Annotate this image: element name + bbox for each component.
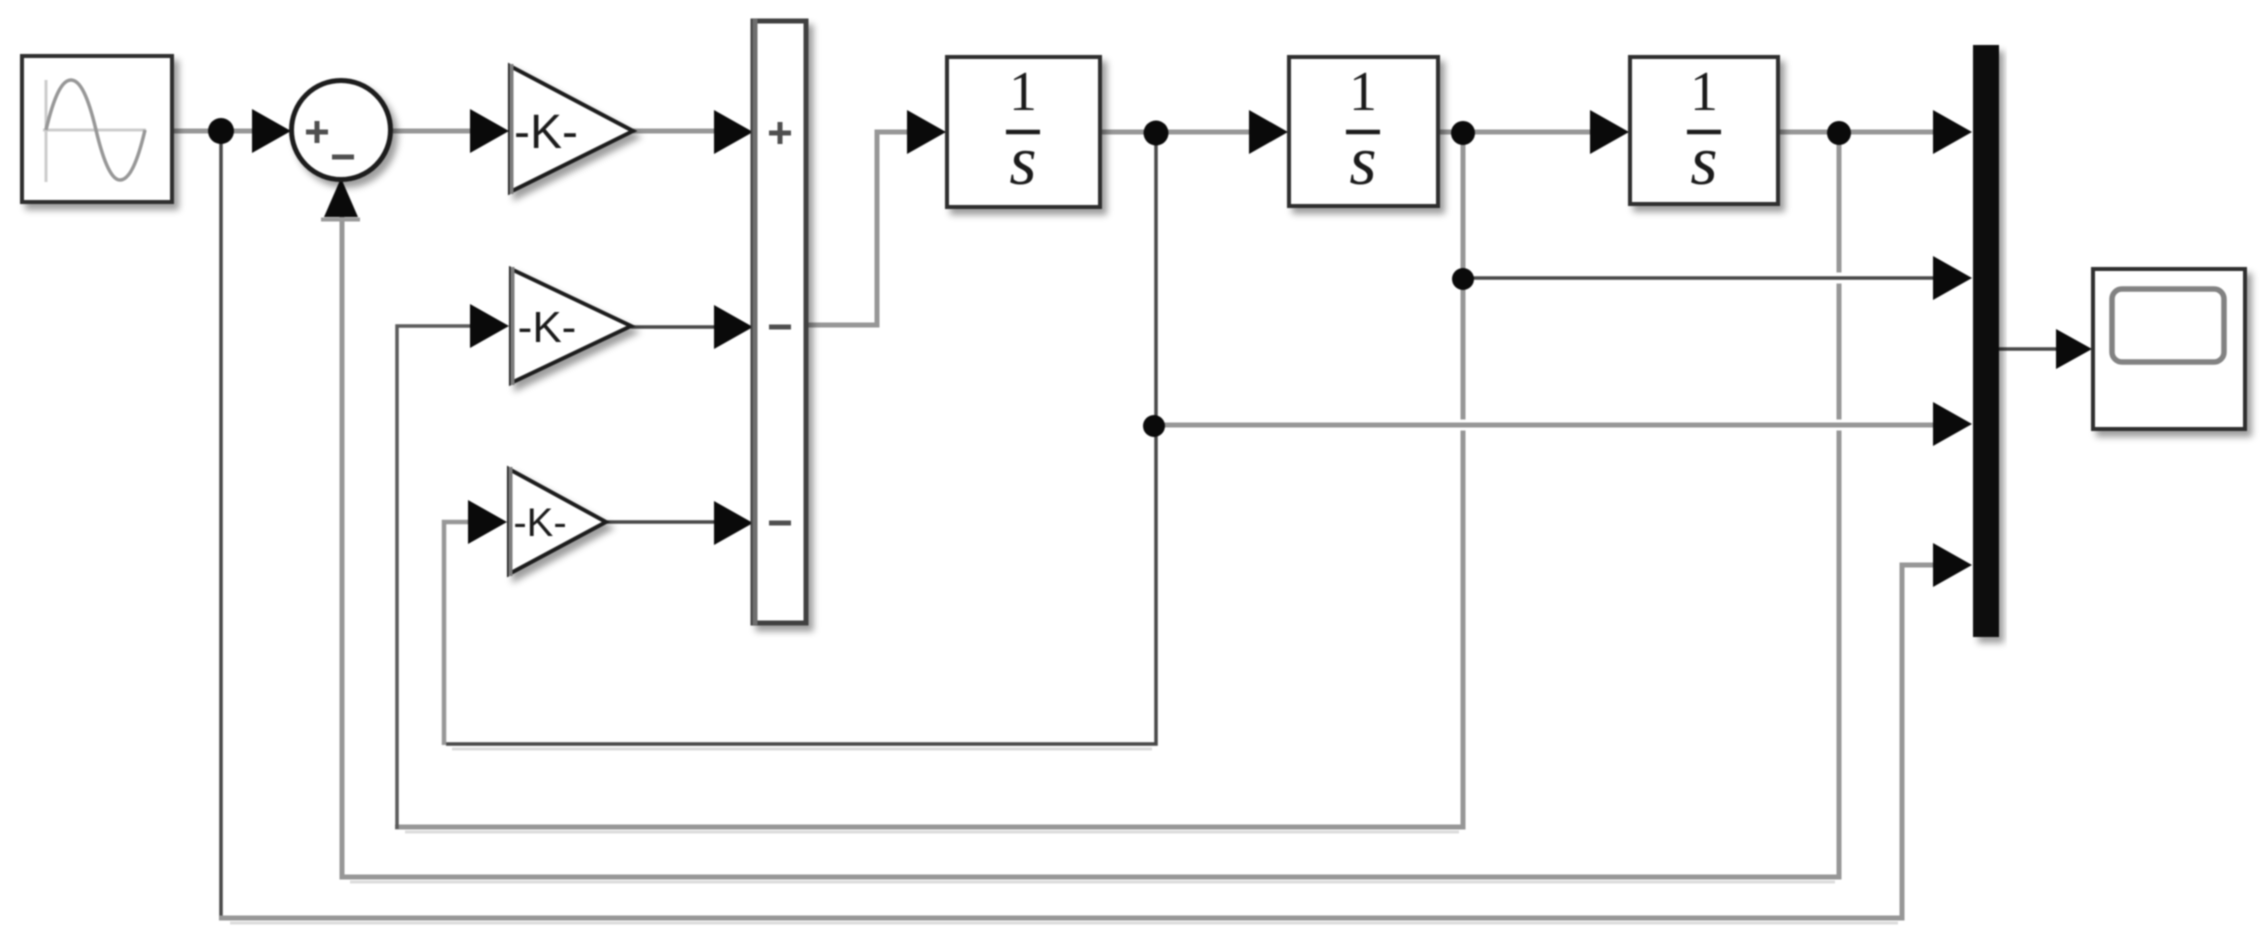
junction dot after integrator3 <box>1827 121 1851 145</box>
wire bottom feedthrough to mux input 4 <box>219 565 1936 918</box>
sum circle minus sign <box>332 155 354 160</box>
junction dot after integrator1 <box>1144 121 1169 146</box>
sum block left edge <box>753 19 758 625</box>
sine icon curve <box>46 80 145 180</box>
gain2 triangle <box>511 269 631 383</box>
wire source to sum junction input <box>174 129 255 134</box>
sum block minus sign 2 <box>769 521 791 526</box>
arrowhead into sum block input 1 <box>714 110 753 154</box>
gain3 triangle <box>509 469 606 574</box>
wire shadow accents on long bottom runs <box>230 749 1898 923</box>
wire sum circle to gain1 <box>393 129 473 134</box>
svg-text:1: 1 <box>1349 61 1377 123</box>
mux block <box>1973 45 1999 637</box>
integrator1 block <box>947 57 1100 207</box>
arrowhead into integrator1 <box>907 110 946 154</box>
wire integrator3 output to mux input 1 <box>1778 130 1936 135</box>
svg-text:s: s <box>1009 123 1036 200</box>
wire node A branch down from source <box>219 136 223 918</box>
arrowhead into gain1 <box>470 109 509 153</box>
gain2 left edge <box>511 267 515 385</box>
arrowhead into gain2 <box>470 304 509 348</box>
wire feedback x1 vertical from integrator1 <box>446 140 1156 744</box>
svg-text:1: 1 <box>1009 61 1037 123</box>
gain1 triangle <box>510 66 633 192</box>
wire gain3 output to sum block second minus input <box>606 520 718 524</box>
arrowhead into sum block input 2 <box>714 305 753 349</box>
wire mux output to scope <box>1999 347 2058 351</box>
integrator1 label 1/s <box>1006 61 1040 200</box>
svg-text:-K-: -K- <box>514 106 578 159</box>
wire gain2 output to sum block minus input <box>631 325 718 329</box>
arrowhead into mux input 4 <box>1933 543 1972 587</box>
arrowhead into scope <box>2056 329 2092 369</box>
junction dot branch x1 <box>1143 415 1165 437</box>
wire cap under sum circle arrow <box>321 218 360 222</box>
wire branch x1 to mux input 3 <box>1150 420 1936 431</box>
integrator2 label 1/s <box>1346 61 1380 200</box>
sum circle <box>292 81 391 180</box>
scope block <box>2093 269 2245 429</box>
sine wave source block <box>22 56 172 202</box>
svg-text:s: s <box>1690 123 1717 200</box>
svg-text:-K-: -K- <box>518 303 577 352</box>
junction dot branch x2 <box>1452 268 1474 290</box>
arrowhead up into sum circle bottom <box>324 178 358 217</box>
arrowhead into mux input 3 <box>1933 402 1972 446</box>
wire integrator1 output to integrator2 <box>1100 130 1252 135</box>
wire feedback x2 vertical from integrator2 <box>395 140 1463 827</box>
sum block minus sign 1 <box>769 325 791 330</box>
svg-text:-K-: -K- <box>513 501 566 545</box>
arrowhead into mux input 1 <box>1933 110 1972 154</box>
wire integrator2 output to integrator3 <box>1438 130 1593 135</box>
arrowhead into integrator3 <box>1590 110 1629 154</box>
arrowhead into gain3 <box>468 500 507 544</box>
arrowhead into integrator2 <box>1249 110 1288 154</box>
integrator2 block <box>1289 57 1438 206</box>
wire branch x2 to mux input 2 <box>1457 273 1936 284</box>
wire gain1 to sum block plus input <box>633 129 717 134</box>
wire feedback x1 riser to gain3 <box>444 522 471 745</box>
gain3 left edge <box>509 467 513 576</box>
integrator3 label 1/s <box>1687 61 1721 200</box>
sum block vertical <box>753 21 806 623</box>
sum block plus sign <box>769 122 791 144</box>
arrowhead into sum circle <box>252 109 291 153</box>
junction dot after integrator2 <box>1451 121 1475 145</box>
arrowhead into mux input 2 <box>1933 256 1972 300</box>
sine icon axes <box>43 80 146 182</box>
wire feedback x3 from integrator3 to sum circle <box>342 140 1839 877</box>
sum circle plus sign <box>306 121 328 143</box>
wire sum block output to integrator1 <box>806 132 910 325</box>
arrowhead into sum block input 3 <box>714 501 753 545</box>
junction dot at source output <box>208 118 234 144</box>
scope screen <box>2112 289 2224 362</box>
gain1 left edge <box>510 64 514 194</box>
svg-text:1: 1 <box>1690 61 1718 123</box>
wire feedback x2 riser to gain2 <box>397 326 473 829</box>
integrator3 block <box>1630 57 1778 204</box>
svg-text:s: s <box>1349 123 1376 200</box>
